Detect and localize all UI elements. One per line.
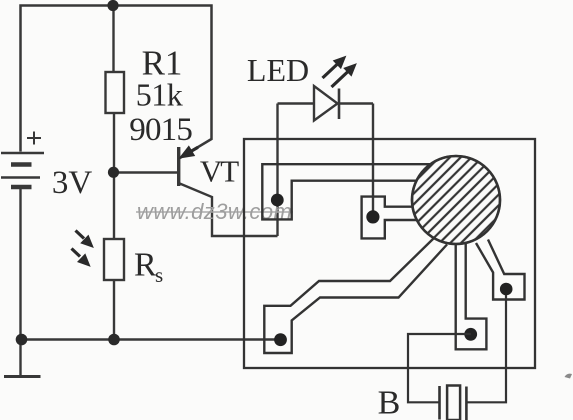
svg-text:VT: VT [200, 154, 239, 189]
svg-text:R: R [134, 247, 157, 284]
svg-text:51k: 51k [136, 77, 183, 113]
svg-text:s: s [155, 263, 163, 287]
svg-text:B: B [378, 385, 401, 420]
svg-text:LED: LED [247, 52, 309, 88]
svg-text:9015: 9015 [129, 112, 192, 148]
svg-text:3V: 3V [52, 165, 93, 201]
